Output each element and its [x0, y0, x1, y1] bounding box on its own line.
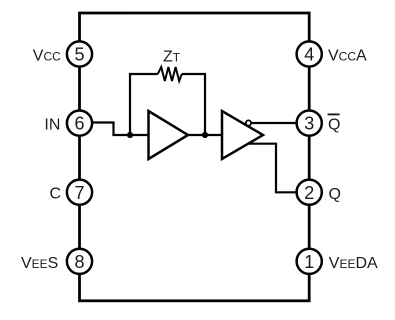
- svg-text:C: C: [49, 186, 61, 203]
- svg-text:3: 3: [304, 114, 314, 134]
- svg-text:6: 6: [74, 114, 84, 134]
- svg-text:8: 8: [74, 252, 84, 272]
- svg-text:5: 5: [74, 45, 84, 65]
- svg-text:1: 1: [304, 252, 314, 272]
- svg-text:Q: Q: [329, 186, 341, 203]
- svg-text:Q: Q: [328, 117, 340, 134]
- svg-text:IN: IN: [44, 117, 60, 134]
- svg-text:VCCA: VCCA: [328, 48, 367, 65]
- svg-text:ZT: ZT: [163, 48, 181, 65]
- svg-text:2: 2: [304, 183, 314, 203]
- svg-text:VEEDA: VEEDA: [329, 255, 378, 272]
- svg-text:VEES: VEES: [21, 255, 58, 272]
- svg-text:7: 7: [74, 183, 84, 203]
- svg-text:4: 4: [304, 45, 314, 65]
- svg-text:VCC: VCC: [33, 48, 61, 65]
